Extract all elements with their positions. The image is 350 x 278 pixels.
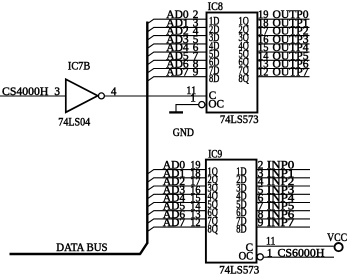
wire IC8 pin 15 to OUTP4 [257,51,309,53]
wire AD6 bus tap to IC9 pin 13 [147,219,206,224]
wire AD2 bus tap to IC9 pin 17 [147,186,206,191]
svg-text:AD7: AD7 [163,217,186,229]
svg-text:CS6000H: CS6000H [278,247,325,259]
wire IC9 pin 6 to INP4 [256,202,310,204]
wire IC8 pin 19 to OUTP0 [257,18,309,20]
svg-text:1: 1 [190,92,196,104]
wire AD4 bus tap to IC8 pin 6 [147,52,206,57]
VCC symbol [335,243,343,251]
IC9 OC inversion bubble [257,254,263,260]
wire AD7 bus tap to IC8 pin 9 [147,77,206,82]
inverter U IC7B triangle [66,79,98,112]
svg-text:11: 11 [266,236,275,248]
wire AD5 bus tap to IC9 pin 14 [147,211,206,216]
svg-text:OUTP7: OUTP7 [273,67,309,79]
data bus: horizontal segment [10,253,141,255]
wire AD1 bus tap to IC9 pin 18 [147,178,206,183]
svg-text:VCC: VCC [327,232,347,244]
wire AD4 bus tap to IC9 pin 15 [147,203,206,208]
data bus: corner bend [140,243,148,254]
wire IC8 pin 17 to OUTP2 [257,35,309,37]
wire IC9 pin 9 to INP7 [256,226,310,228]
svg-text:OC: OC [208,98,224,110]
svg-text:INP7: INP7 [267,217,295,229]
svg-text:8Q: 8Q [239,73,249,85]
wire IC9 pin 2 to INP0 [256,169,310,171]
svg-text:OC: OC [239,250,254,262]
wire IC9 pin 1 (OC) CS6000H net [264,256,334,258]
wire IC8 pin 13 to OUTP6 [257,68,309,70]
svg-text:8D: 8D [209,73,219,85]
wire AD0 bus tap to IC9 pin 19 [147,170,206,175]
wire IC8 pin 1 (OC) to ground [176,105,199,112]
svg-text:IC9: IC9 [208,149,222,161]
wire IC9 pin 8 to INP6 [256,218,310,220]
svg-text:IC7B: IC7B [68,61,90,73]
latch IC9 74LS573 body [206,160,257,263]
svg-text:12: 12 [258,67,268,79]
data bus: vertical segment [146,22,148,244]
wire IC8 pin 18 to OUTP1 [257,26,309,28]
svg-text:8D: 8D [236,224,246,236]
wire AD3 bus tap to IC9 pin 16 [147,194,206,199]
IC8 OC inversion bubble [199,102,205,108]
svg-text:CS4000H: CS4000H [2,86,48,98]
inverter IC7B output bubble [98,93,104,99]
ground symbol [169,111,183,113]
wire AD5 bus tap to IC8 pin 7 [147,60,206,65]
wire AD6 bus tap to IC8 pin 8 [147,69,206,74]
svg-text:8Q: 8Q [208,224,218,236]
svg-text:74LS04: 74LS04 [58,117,90,129]
wire AD2 bus tap to IC8 pin 4 [147,36,206,41]
svg-text:12: 12 [190,217,200,229]
wire IC9 pin 5 to INP3 [256,193,310,195]
wire IC9 pin 3 to INP1 [256,177,310,179]
svg-text:IC8: IC8 [208,1,223,13]
wire AD7 bus tap to IC9 pin 12 [147,227,206,232]
svg-text:74LS573: 74LS573 [219,264,259,276]
svg-text:4: 4 [111,86,117,98]
wire: CS4000H net to IC7B input [0,95,66,97]
svg-text:9: 9 [258,217,264,229]
wire IC9 pin 11 (C) to VCC [256,245,333,247]
svg-text:9: 9 [193,67,199,79]
svg-text:74LS573: 74LS573 [220,114,259,126]
wire IC8 pin 14 to OUTP5 [257,59,309,61]
wire IC8 pin 16 to OUTP3 [257,43,309,45]
wire AD0 bus tap to IC8 pin 2 [147,19,206,24]
svg-text:AD7: AD7 [166,67,189,79]
latch IC8 74LS573 body [207,13,258,113]
svg-text:1: 1 [267,247,273,259]
svg-text:GND: GND [173,127,194,139]
wire AD3 bus tap to IC8 pin 5 [147,44,206,49]
wire IC9 pin 4 to INP2 [256,185,310,187]
svg-text:DATA BUS: DATA BUS [56,242,107,254]
wire IC8 pin 12 to OUTP7 [257,76,309,78]
wire: IC7B pin 4 to IC8 pin 11 (C) [105,95,207,97]
wire AD1 bus tap to IC8 pin 3 [147,27,206,32]
wire IC9 pin 7 to INP5 [256,210,310,212]
svg-text:3: 3 [54,86,60,98]
